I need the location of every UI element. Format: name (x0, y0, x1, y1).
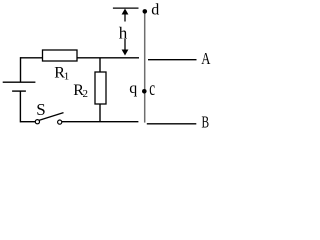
svg-text:d: d (151, 2, 159, 19)
svg-text:2: 2 (83, 88, 89, 100)
svg-text:h: h (119, 24, 128, 43)
svg-text:q: q (129, 80, 137, 97)
svg-text:S: S (36, 100, 45, 119)
svg-text:c: c (149, 78, 155, 100)
svg-text:1: 1 (64, 71, 70, 83)
svg-text:B: B (202, 113, 210, 132)
svg-text:A: A (201, 49, 211, 68)
